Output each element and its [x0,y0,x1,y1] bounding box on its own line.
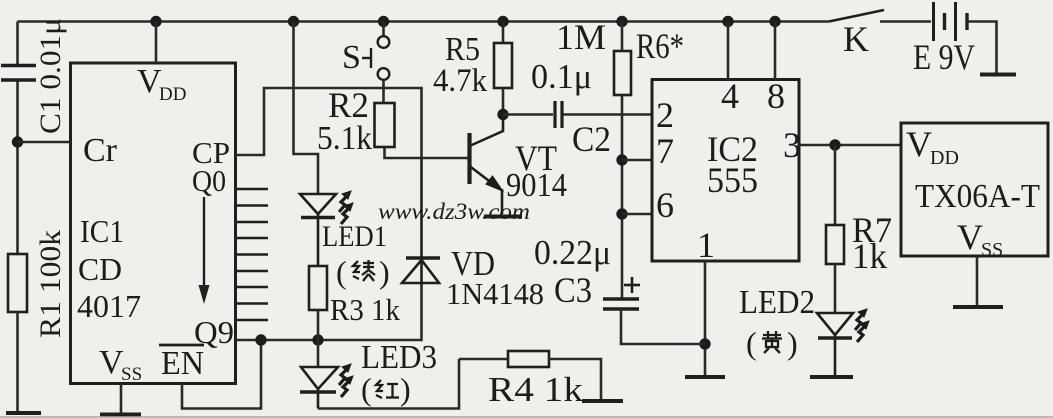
wire to pin 6 [622,213,652,216]
node pin3-R7 junction [829,139,840,150]
svg-text:1N4148: 1N4148 [446,276,544,311]
wire Q9 output line [236,285,422,340]
svg-text:SS: SS [981,239,1003,261]
svg-text:1: 1 [697,225,715,265]
wire R2 to VT base [385,147,470,158]
svg-text:R4 1k: R4 1k [488,370,584,409]
svg-text:4.7k: 4.7k [433,63,487,99]
internal sequence arrow of IC1 [199,197,210,304]
emission arrows of LED3 [339,364,353,397]
wire VDD pin to rail [155,22,158,64]
wire TX to ground [976,256,979,305]
svg-text:4: 4 [721,76,739,116]
svg-text:6: 6 [656,185,674,225]
svg-text:SS: SS [121,364,142,385]
wire top supply rail [18,20,830,23]
ground VSS [100,413,141,417]
svg-text:S: S [342,39,361,76]
ground TX [953,305,1003,309]
capacitor C2 [555,101,562,128]
wire pin 1 down [704,261,707,376]
svg-text:CD: CD [78,251,122,287]
emitter arrowhead of VT [487,177,503,191]
wire C3 bottom to pin1 line [621,309,705,344]
svg-text:): ) [400,371,411,407]
svg-text:5.1k: 5.1k [317,120,372,157]
svg-text:7: 7 [656,131,674,171]
switch S pushbutton [362,22,389,104]
svg-text:4017: 4017 [77,288,141,324]
svg-text:DD: DD [159,84,186,105]
scan edge line bottom [0,416,1053,418]
switch K [829,10,931,22]
svg-text:): ) [787,325,798,361]
LED LED3 [300,340,338,409]
ground LED2 [810,375,853,379]
node pin7 junction [616,154,627,165]
svg-text:R2: R2 [328,85,369,125]
emission arrows of LED2 [855,309,869,342]
wire CP route up and over to VT base column [236,88,422,158]
wire left branch down to C1 [16,22,19,65]
wire rail to R6 [621,22,624,52]
svg-text:): ) [379,254,390,290]
wire to pin 7 [622,159,652,162]
svg-text:3: 3 [783,125,801,165]
label VSS of TX [957,217,1003,261]
wire to R4 left [459,358,508,361]
battery E 9V [934,2,968,41]
op IC1 CD4017 box [71,63,236,384]
svg-text:DD: DD [930,147,959,169]
svg-text:V: V [957,217,983,257]
label VDD of TX [906,124,959,169]
svg-text:LED3: LED3 [361,339,437,376]
wire pin 8 to rail [774,22,777,80]
module TX06A-T box [901,123,1048,256]
svg-text:TX06A-T: TX06A-T [915,178,1040,215]
svg-text:8: 8 [767,76,785,116]
label (red) [361,371,411,407]
svg-text:C1 0.01μ: C1 0.01μ [34,18,67,134]
ground R4 [582,399,623,403]
wire R5 to collector node [502,88,505,114]
capacitor C3 electrolytic [603,299,639,309]
node Q9-R3-LED3 junction [312,334,323,345]
node collector junction [497,109,508,120]
wire rail to R5 [502,22,505,44]
svg-text:1M: 1M [556,17,606,57]
wire R3 to Q9 line [317,310,320,340]
svg-text:E 9V: E 9V [913,37,975,77]
diode VD 1N4148 [402,158,440,285]
svg-text:Q0: Q0 [192,163,226,198]
svg-text:(: ( [746,325,757,361]
capacitor C1 [1,66,36,81]
wire R1 to ground [16,312,19,412]
LED LED2 [817,313,853,376]
node Q9-EN junction [255,334,266,345]
resistor R1 [8,254,27,312]
resistor R7 [826,225,844,264]
svg-text:R3 1k: R3 1k [330,292,400,327]
ground battery [980,73,1016,77]
wire C2 to pin2 [564,113,653,116]
node pin1-C3 junction [699,338,710,349]
wire to Cr pin [18,141,71,144]
resistor R5 [494,43,512,88]
label (green) [336,254,390,290]
wire R4 right to ground [549,359,601,400]
resistor R2 [375,103,395,147]
svg-text:K: K [843,19,869,59]
svg-text:0.22μ: 0.22μ [534,233,611,272]
svg-text:EN: EN [161,345,204,382]
wire rail to LED1 branch [294,22,319,195]
wire R6 down to C3 [621,95,624,298]
polarity plus of C3 [624,277,640,293]
svg-text:IC1: IC1 [80,213,124,249]
svg-text:R6*: R6* [636,26,684,66]
output stubs Q1-Q8 of IC1 [236,189,269,320]
node Cr junction [12,136,23,147]
label (yellow) [746,325,798,361]
emission arrows of LED1 [339,191,353,224]
label VSS of IC1 [99,344,142,385]
resistor R6 [614,51,631,95]
junction dots on top rail [150,16,780,27]
wire pin 4 to rail [727,22,730,80]
svg-text:C2: C2 [572,119,611,159]
wire C1 to R1 with Cr tap [16,82,19,255]
node pin6 junction [616,208,627,219]
svg-text:2: 2 [656,95,674,135]
wire pin3 node down to R7 [834,145,837,225]
wire battery to ground [967,22,997,74]
ground pin 1 [685,375,725,379]
wire node to C2 [503,113,553,116]
svg-text:www.dz3w.com: www.dz3w.com [378,199,530,224]
svg-text:LED2: LED2 [739,284,815,321]
ground R1 [6,411,41,415]
svg-text:V: V [906,124,932,164]
svg-text:C3: C3 [554,270,592,310]
wire pin 3 to TX module [799,144,901,147]
svg-text:555: 555 [707,160,758,200]
op IC2 555 box [652,80,799,262]
transistor VT 9014 [470,114,504,214]
label EN pin with overline [159,345,204,382]
svg-text:Cr: Cr [83,132,118,169]
svg-text:R1 100k: R1 100k [34,230,67,338]
svg-text:0.1μ: 0.1μ [531,57,592,96]
svg-text:(: ( [361,371,372,407]
svg-text:1k: 1k [852,236,887,276]
wire R7 to LED2 [834,264,837,313]
ground VT emitter [484,215,522,219]
wire EN loop to Q9 node [182,340,261,409]
resistor R3 [309,266,327,310]
label VDD of IC1 [137,63,186,105]
svg-text:LED1: LED1 [322,220,387,253]
LED LED1 [300,194,336,266]
wire LED3 to R4 [318,359,459,409]
svg-text:(: ( [336,254,347,290]
wire VSS pin to ground [120,384,123,415]
resistor R4 [508,351,549,367]
